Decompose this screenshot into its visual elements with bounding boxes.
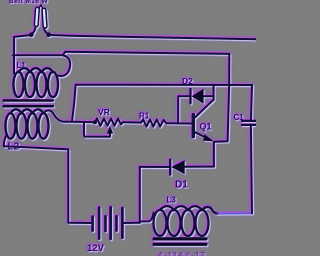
svg-text:D1: D1 — [175, 180, 188, 191]
diode D1 cathode bar — [169, 160, 171, 175]
svg-text:D2: D2 — [182, 76, 193, 86]
neon lamp electrodes — [34, 5, 47, 28]
potentiometer VR wiper arrowhead — [107, 126, 113, 134]
wire right rail lower — [251, 126, 252, 213]
capacitor C1 bottom plate — [242, 124, 256, 126]
wire battery to x140 node — [124, 222, 140, 224]
transformer L2 winding — [6, 109, 72, 138]
wire VR to R1 — [123, 121, 141, 123]
battery plate long 2 — [109, 207, 112, 239]
wire node to VR — [72, 121, 95, 124]
transistor Q1 emitter arrowhead — [203, 134, 214, 141]
inductor L3 left lead — [140, 213, 154, 222]
battery plate long 1 — [98, 208, 101, 239]
diode D1 triangle — [171, 160, 184, 174]
wire horizontal y85 — [76, 84, 252, 86]
wire emitter down to D1 — [213, 142, 215, 167]
svg-text:L1: L1 — [17, 61, 27, 70]
wire left rail down to L1 — [13, 37, 15, 74]
lamp terminal blob right — [46, 32, 51, 37]
transformer core — [3, 99, 55, 107]
wire second rail y55 — [13, 52, 229, 56]
lamp lead left — [32, 27, 36, 34]
wire bottom-left path to battery — [4, 146, 92, 223]
battery left wire — [91, 222, 93, 224]
battery plate short 2 — [104, 216, 107, 231]
diode D2 cathode bar — [189, 89, 191, 103]
svg-text:Bett M16 W: Bett M16 W — [9, 0, 48, 5]
transistor Q1 collector — [195, 100, 214, 118]
wire vertical x74 to VR node — [72, 85, 76, 122]
battery plate long 3 — [121, 208, 124, 238]
inductor L3 core — [153, 237, 208, 246]
battery plate short 3 — [115, 216, 118, 230]
transistor Q1 emitter — [195, 132, 212, 140]
potentiometer VR wiper arm — [84, 122, 110, 136]
svg-text:L2: L2 — [8, 142, 20, 153]
lamp terminal blob left — [29, 32, 34, 37]
wire D1 horizontal — [140, 166, 214, 168]
cut-off caption text top edge — [9, 0, 48, 5]
wire R1 to Q1 base — [166, 122, 191, 124]
inductor L3 winding — [154, 206, 219, 236]
resistor R1 — [141, 120, 166, 127]
wire D2 left leg — [178, 96, 190, 123]
wire top-left from lamp to left rail — [14, 35, 31, 37]
svg-text:R1: R1 — [139, 112, 150, 121]
wire right vertical x229 — [214, 54, 229, 142]
transformer L1 winding — [14, 56, 71, 98]
svg-text:C1: C1 — [234, 113, 245, 122]
potentiometer VR body — [95, 119, 123, 126]
node junction dot VR left — [93, 120, 97, 124]
wire L2 left lead down — [4, 136, 6, 146]
wire top rail to right edge — [49, 35, 256, 39]
svg-text:L3: L3 — [167, 196, 177, 205]
transistor Q1 base bar — [192, 115, 195, 137]
svg-text:Q1: Q1 — [200, 122, 212, 132]
svg-text:VR: VR — [98, 107, 110, 117]
diode D2 triangle — [192, 89, 204, 104]
lamp lead right — [44, 29, 48, 35]
wire right rail upper (to C1) — [251, 85, 252, 120]
capacitor C1 top plate — [242, 120, 256, 122]
wire x140 vertical down — [139, 167, 141, 223]
svg-text:12V: 12V — [87, 243, 105, 254]
battery plate short 1 — [91, 217, 94, 231]
svg-text:4-11&#-17: 4-11&#-17 — [158, 251, 206, 256]
wire L3 right to rail — [218, 212, 252, 214]
wire D2 right to collector node — [204, 95, 214, 97]
wire collector vertical — [213, 85, 215, 100]
